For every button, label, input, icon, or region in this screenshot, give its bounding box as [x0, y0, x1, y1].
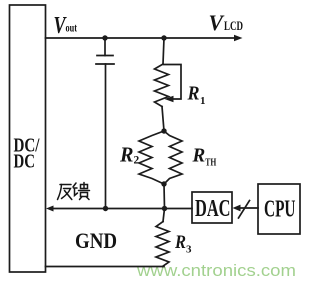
svg-text:V: V [209, 10, 226, 35]
svg-text:LCD: LCD [224, 18, 243, 33]
svg-text:R: R [174, 232, 186, 253]
svg-text:out: out [66, 23, 78, 35]
svg-text:CPU: CPU [264, 197, 296, 223]
svg-text:R: R [187, 83, 200, 105]
svg-text:www.cntronics.com: www.cntronics.com [136, 261, 296, 280]
svg-text:3: 3 [186, 244, 192, 256]
svg-text:R: R [119, 143, 133, 167]
svg-text:DAC: DAC [195, 196, 231, 222]
svg-text:2: 2 [134, 155, 140, 167]
svg-text:GND: GND [75, 228, 117, 253]
svg-text:TH: TH [205, 158, 216, 169]
svg-text:1: 1 [200, 95, 206, 107]
svg-text:R: R [192, 145, 206, 167]
svg-text:DC: DC [14, 151, 36, 173]
